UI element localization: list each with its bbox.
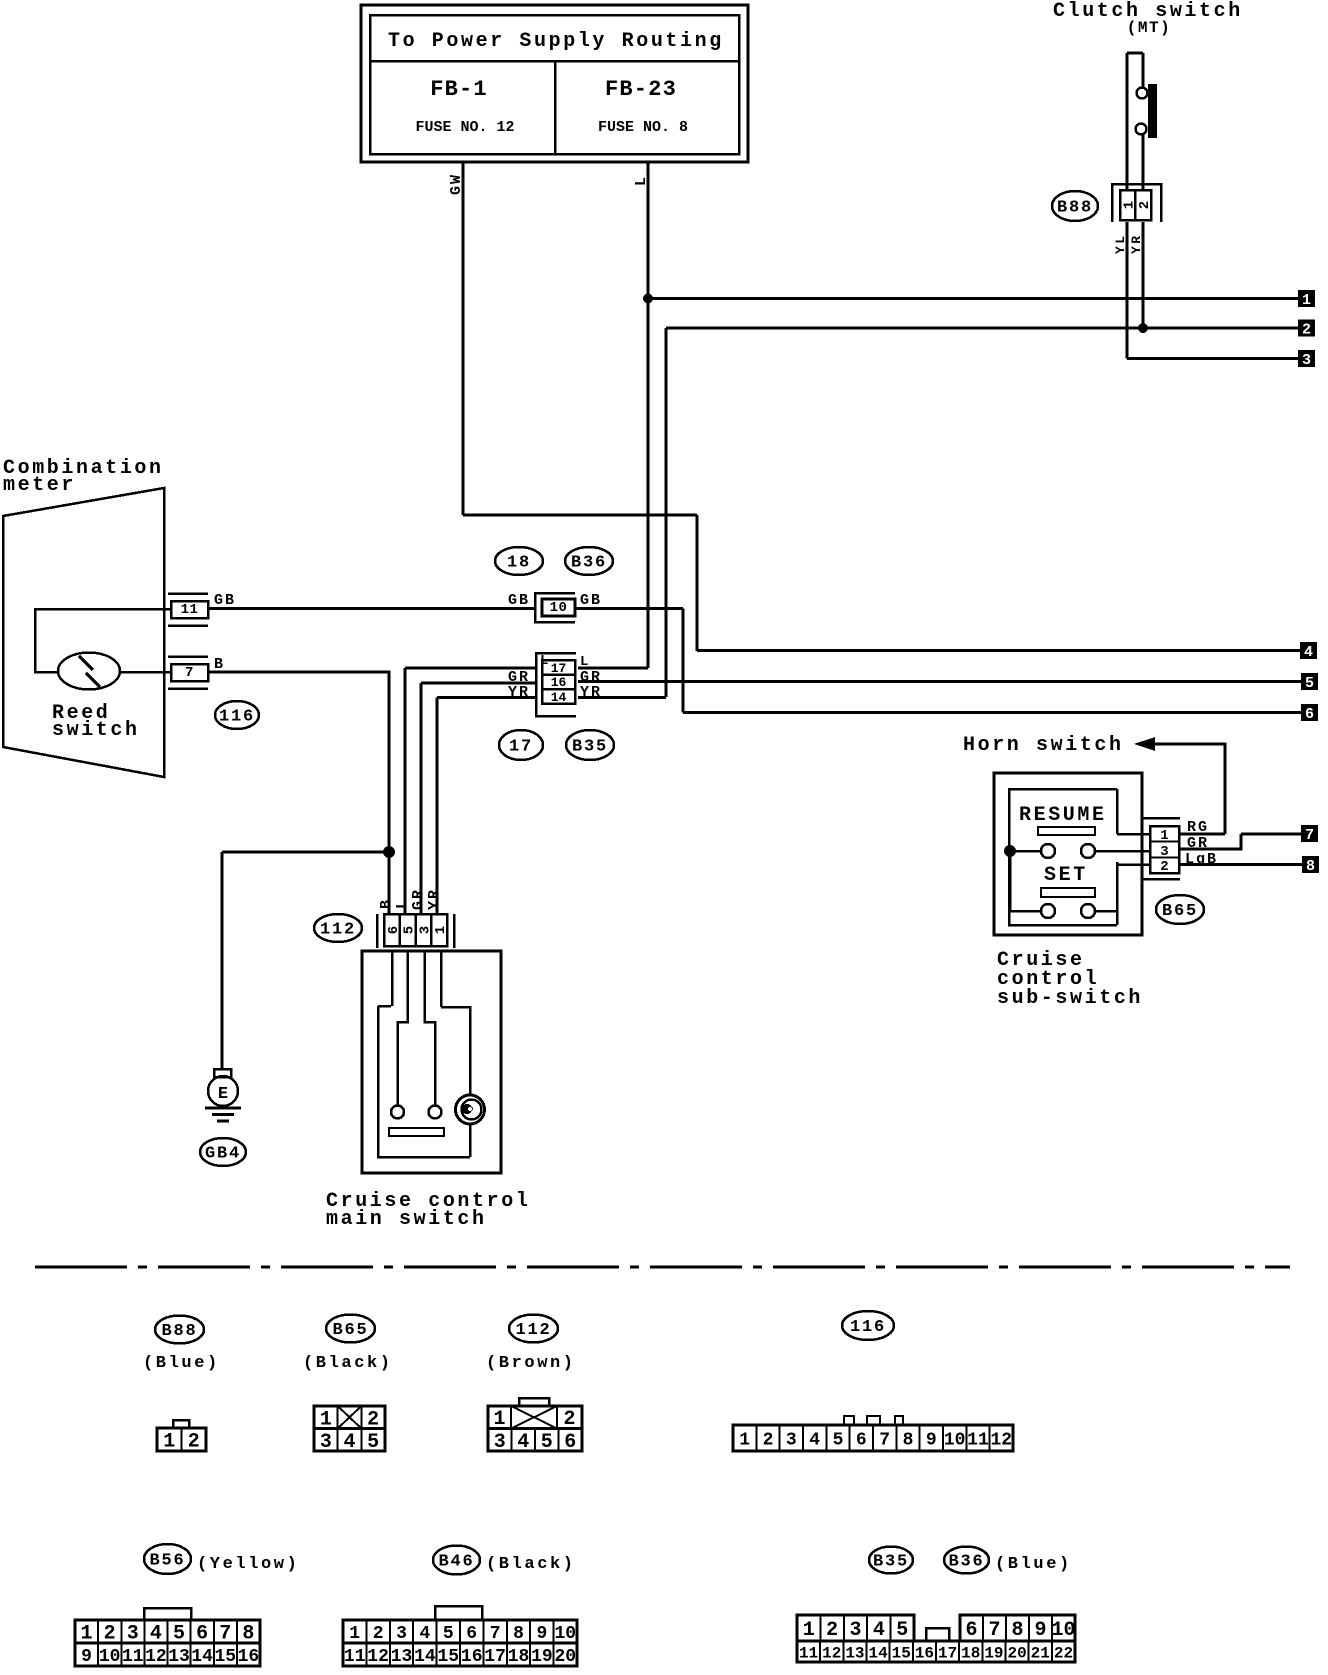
svg-text:B: B <box>214 656 225 673</box>
power supply routing box <box>361 5 748 162</box>
set bar <box>1041 888 1095 897</box>
main switch inner box edges <box>378 1005 391 1008</box>
svg-text:(MT): (MT) <box>1127 19 1171 37</box>
oval label B36 legend <box>944 1547 989 1574</box>
wire lamp to inner box bottom <box>469 1124 472 1157</box>
wire common down to set row <box>1010 851 1041 911</box>
svg-text:FB-1: FB-1 <box>430 77 488 102</box>
svg-text:B46: B46 <box>438 1553 474 1572</box>
svg-text:13: 13 <box>391 1647 413 1667</box>
svg-text:6: 6 <box>466 1624 477 1644</box>
svg-text:18: 18 <box>508 1647 530 1667</box>
resume bar <box>1038 827 1095 835</box>
svg-text:20: 20 <box>554 1647 576 1667</box>
wire YL down to line3 <box>1126 222 1129 359</box>
svg-text:10: 10 <box>550 600 568 616</box>
svg-text:sub-switch: sub-switch <box>997 987 1143 1010</box>
svg-text:switch: switch <box>52 719 140 742</box>
connector pin 16 box <box>542 675 575 690</box>
wire resume contact to connector pin3 <box>1095 850 1150 853</box>
svg-text:9: 9 <box>1034 1619 1046 1642</box>
svg-text:8: 8 <box>903 1430 914 1450</box>
svg-text:11: 11 <box>181 602 199 618</box>
wire line 2 to tag 2 <box>666 327 1300 330</box>
oval label B88 legend <box>155 1316 204 1344</box>
node junction B/ground branch <box>384 847 395 858</box>
connector B88 pin 2 cell <box>1135 190 1151 220</box>
svg-text:L: L <box>580 654 588 670</box>
connector B88 bracket <box>1112 184 1161 222</box>
svg-text:main switch: main switch <box>326 1208 487 1231</box>
meter pin 11 bracket <box>168 592 208 595</box>
svg-text:FB-23: FB-23 <box>605 77 677 102</box>
svg-text:12: 12 <box>145 1647 167 1667</box>
connector 112 cells <box>384 914 447 946</box>
svg-text:RESUME: RESUME <box>1019 804 1107 827</box>
svg-text:(Yellow): (Yellow) <box>197 1555 299 1574</box>
svg-text:9: 9 <box>81 1647 92 1667</box>
svg-text:E: E <box>218 1085 228 1104</box>
svg-text:meter: meter <box>3 474 76 497</box>
svg-text:4: 4 <box>343 1431 355 1454</box>
svg-text:5: 5 <box>896 1619 908 1642</box>
svg-text:4: 4 <box>1304 644 1313 661</box>
connector B46 legend cells <box>343 1620 577 1643</box>
main switch contact circle left <box>391 1106 404 1119</box>
svg-text:4: 4 <box>517 1431 529 1454</box>
svg-text:(Blue): (Blue) <box>995 1555 1072 1574</box>
svg-text:18: 18 <box>507 554 531 573</box>
svg-text:B65: B65 <box>1162 902 1198 921</box>
svg-text:2: 2 <box>826 1619 838 1642</box>
svg-text:4: 4 <box>419 1624 430 1644</box>
svg-text:5: 5 <box>541 1431 553 1454</box>
svg-text:LgB: LgB <box>1185 851 1218 868</box>
sub-switch connector cells <box>1150 826 1179 873</box>
wire pin1 left <box>1117 833 1150 836</box>
wire GB down x683 <box>682 609 685 713</box>
separator dash-dot line <box>35 1266 1290 1269</box>
main switch actuator bar <box>389 1128 444 1136</box>
svg-text:YR: YR <box>426 888 443 910</box>
svg-text:1: 1 <box>739 1430 750 1450</box>
svg-text:L: L <box>540 653 548 669</box>
main switch outer box <box>362 951 501 1173</box>
svg-text:7: 7 <box>879 1430 890 1450</box>
svg-text:6: 6 <box>386 926 402 934</box>
resume contact circle right <box>1081 844 1095 858</box>
oval label 17 <box>499 730 543 760</box>
svg-text:3: 3 <box>494 1431 506 1454</box>
wire GR down to 112 <box>420 683 423 914</box>
svg-text:13: 13 <box>845 1644 864 1662</box>
svg-text:7: 7 <box>988 1619 1000 1642</box>
svg-text:15: 15 <box>215 1647 237 1667</box>
node common junction dot <box>1005 846 1016 857</box>
wire GB from pin11 to connector 10 <box>208 607 535 610</box>
connector B46 legend tab <box>435 1606 482 1620</box>
svg-text:YR: YR <box>508 684 530 701</box>
node junction L/line1 <box>644 294 653 303</box>
oval label 116 legend <box>842 1311 894 1340</box>
svg-text:10: 10 <box>944 1430 966 1450</box>
connector B35/B36 legend tab <box>926 1628 949 1641</box>
wire B into switch <box>391 951 394 1006</box>
svg-text:8: 8 <box>1011 1619 1023 1642</box>
svg-text:3: 3 <box>849 1619 861 1642</box>
oval label B56 legend <box>144 1544 191 1574</box>
svg-text:6: 6 <box>965 1619 977 1642</box>
resume contact circle left <box>1041 844 1055 858</box>
oval label B36 <box>565 547 613 575</box>
fuse box dividers <box>370 60 739 63</box>
svg-text:To Power Supply Routing: To Power Supply Routing <box>388 30 724 53</box>
svg-text:RG: RG <box>1187 819 1209 836</box>
svg-text:8: 8 <box>513 1624 524 1644</box>
svg-text:17: 17 <box>938 1644 957 1662</box>
svg-text:16: 16 <box>915 1644 934 1662</box>
svg-text:9: 9 <box>536 1624 547 1644</box>
wire L right segment pin17 <box>578 667 648 670</box>
tag 3 <box>1298 350 1315 367</box>
svg-text:YR: YR <box>580 684 602 701</box>
connector B65 legend cells <box>314 1406 385 1429</box>
connector 112 legend tab <box>519 1398 549 1406</box>
wire pin2 right LgB to tag8 <box>1179 863 1304 866</box>
wire B from pin7 to junction <box>208 672 389 914</box>
wire pin2 left <box>1117 863 1150 866</box>
svg-text:14: 14 <box>551 690 567 705</box>
svg-text:10: 10 <box>1051 1619 1075 1642</box>
wire pin1 right RG to horn <box>1179 833 1225 836</box>
set contact circle left <box>1041 904 1055 918</box>
svg-text:11: 11 <box>799 1644 818 1662</box>
svg-text:16: 16 <box>461 1647 483 1667</box>
wire L vertical from FB-23 <box>647 162 650 668</box>
svg-text:B88: B88 <box>161 1322 197 1341</box>
svg-text:5: 5 <box>443 1624 454 1644</box>
ground symbol bars <box>205 1107 241 1110</box>
wire YR right segment pin14 <box>578 696 666 699</box>
wire GR left segment pin16 <box>421 682 536 685</box>
wire L into switch to contact <box>398 951 408 1105</box>
horn arrow <box>1134 737 1155 751</box>
svg-text:11: 11 <box>967 1430 989 1450</box>
svg-text:16: 16 <box>238 1647 260 1667</box>
wire GR into switch to contact <box>425 951 436 1105</box>
svg-text:2: 2 <box>188 1431 200 1454</box>
ground E circle <box>208 1076 238 1106</box>
svg-text:4: 4 <box>873 1619 885 1642</box>
svg-text:2: 2 <box>373 1624 384 1644</box>
oval label B35 legend <box>869 1547 913 1574</box>
clutch plunger bar <box>1148 84 1157 138</box>
meter pin 7 box <box>171 664 208 681</box>
oval label B88 <box>1052 191 1098 221</box>
illumination lamp <box>456 1095 485 1124</box>
svg-text:5: 5 <box>833 1430 844 1450</box>
wire vertical x666 line2 to pin14 <box>665 328 668 697</box>
oval label GB4 <box>200 1138 246 1166</box>
svg-text:7: 7 <box>185 665 194 681</box>
connector 116 legend cells <box>733 1425 1013 1451</box>
svg-text:1: 1 <box>349 1624 360 1644</box>
tag 7 <box>1301 825 1318 842</box>
svg-text:3: 3 <box>320 1431 332 1454</box>
svg-text:3: 3 <box>1302 352 1311 369</box>
svg-text:B88: B88 <box>1057 199 1093 218</box>
connector pin 14 box <box>542 689 575 704</box>
svg-text:15: 15 <box>437 1647 459 1667</box>
connector B56 legend tab <box>144 1608 191 1620</box>
combination meter outline <box>3 488 164 777</box>
wire L left segment pin17 <box>405 667 536 670</box>
wire line 6 to tag 6 <box>683 711 1303 714</box>
wire line 5 GR to tag 5 <box>578 680 1303 683</box>
svg-text:7: 7 <box>490 1624 501 1644</box>
svg-text:14: 14 <box>191 1647 213 1667</box>
wire GW down to line4 <box>696 515 699 651</box>
svg-text:11: 11 <box>344 1647 366 1667</box>
clutch contact circle 2 <box>1136 124 1147 135</box>
svg-text:3: 3 <box>786 1430 797 1450</box>
svg-text:1: 1 <box>803 1619 815 1642</box>
svg-text:6: 6 <box>1305 706 1314 723</box>
svg-text:19: 19 <box>531 1647 553 1667</box>
svg-text:GB: GB <box>214 592 236 609</box>
svg-text:(Blue): (Blue) <box>143 1354 220 1373</box>
wire YR left segment pin14 <box>437 696 536 699</box>
svg-text:GR: GR <box>1187 835 1209 852</box>
svg-text:Horn switch: Horn switch <box>963 734 1124 757</box>
svg-text:1: 1 <box>163 1431 175 1454</box>
connector B35/B36 legend cells row1 left <box>797 1615 914 1641</box>
svg-text:FUSE NO. 12: FUSE NO. 12 <box>415 119 514 136</box>
wire GW vertical from FB-1 <box>462 162 465 515</box>
sub-switch connector bracket <box>1143 817 1180 820</box>
svg-text:B: B <box>378 898 395 909</box>
wire YR down to 112 <box>436 698 439 915</box>
svg-text:SET: SET <box>1044 864 1088 887</box>
svg-text:7: 7 <box>1305 827 1314 844</box>
svg-text:112: 112 <box>515 1321 551 1340</box>
svg-text:21: 21 <box>1031 1644 1050 1662</box>
wire clutch contact to connector <box>1142 135 1145 190</box>
svg-text:B65: B65 <box>332 1321 368 1340</box>
sub-switch outer box <box>994 773 1142 935</box>
svg-text:22: 22 <box>1054 1644 1073 1662</box>
svg-text:FUSE NO. 8: FUSE NO. 8 <box>598 119 688 136</box>
svg-text:14: 14 <box>868 1644 888 1662</box>
clutch contact circle 1 <box>1137 88 1148 99</box>
svg-text:12: 12 <box>822 1644 841 1662</box>
svg-text:1: 1 <box>1160 828 1168 844</box>
oval label B46 legend <box>433 1546 480 1575</box>
svg-text:2: 2 <box>1160 859 1168 875</box>
svg-text:12: 12 <box>367 1647 389 1667</box>
connector B35/B36 legend cells row1 right <box>960 1615 1075 1641</box>
wire line 3 to tag 3 <box>1127 357 1300 360</box>
connector pin 17 box <box>542 660 575 675</box>
svg-text:L: L <box>394 898 411 909</box>
connector B88 legend cells <box>157 1428 206 1451</box>
svg-text:16: 16 <box>551 675 567 690</box>
oval label 116 <box>215 701 259 729</box>
wire pin3 right GR to tag7 <box>1179 834 1241 849</box>
svg-text:2: 2 <box>1302 322 1311 339</box>
connector 10 bracket <box>535 593 575 622</box>
svg-text:116: 116 <box>219 708 255 727</box>
wire clutch right to contact <box>1142 53 1145 87</box>
connector B56 legend cells <box>75 1620 260 1643</box>
tag 5 <box>1301 673 1318 690</box>
wire clutch left <box>1126 53 1129 190</box>
svg-text:2: 2 <box>763 1430 774 1450</box>
svg-text:8: 8 <box>1306 858 1315 875</box>
meter pin 7 bracket <box>168 655 208 658</box>
svg-text:18: 18 <box>961 1644 980 1662</box>
oval label 112 legend <box>509 1315 558 1343</box>
svg-text:10: 10 <box>554 1624 576 1644</box>
svg-text:12: 12 <box>990 1430 1012 1450</box>
connector B35/B36 legend cells row2 <box>797 1641 1075 1662</box>
svg-text:GR: GR <box>410 888 427 910</box>
wire line 4 to tag 4 <box>697 649 1302 652</box>
svg-text:112: 112 <box>320 921 356 940</box>
svg-text:GB: GB <box>508 592 530 609</box>
tag 6 <box>1301 704 1318 721</box>
svg-text:6: 6 <box>856 1430 867 1450</box>
connector 112 legend cells <box>488 1406 582 1429</box>
svg-text:B35: B35 <box>572 738 608 757</box>
svg-text:11: 11 <box>122 1647 144 1667</box>
svg-text:19: 19 <box>984 1644 1003 1662</box>
wire GW horizontal to x697 <box>463 514 697 517</box>
connector B88 pin 1 cell <box>1120 190 1135 220</box>
wire GB from connector 10 right <box>575 607 683 610</box>
connector 10 box <box>542 599 575 616</box>
svg-text:6: 6 <box>564 1431 576 1454</box>
tag 1 <box>1298 290 1315 307</box>
svg-text:10: 10 <box>99 1647 121 1667</box>
main switch contact circle right <box>429 1106 442 1119</box>
ground E connector neck <box>214 1069 231 1077</box>
connector 116 legend tabs <box>844 1416 854 1425</box>
oval label 18 <box>495 547 543 575</box>
svg-text:5: 5 <box>402 926 418 934</box>
oval label 112 <box>314 914 362 942</box>
svg-text:(Black): (Black) <box>486 1555 576 1574</box>
wire meter internal pin11 <box>35 609 171 672</box>
svg-text:GW: GW <box>448 173 465 195</box>
tag 2 <box>1298 320 1315 337</box>
oval label B35 <box>566 730 614 760</box>
wire line 1 to tag 1 <box>648 297 1300 300</box>
svg-text:L: L <box>633 175 650 186</box>
svg-text:B36: B36 <box>571 554 607 573</box>
svg-text:3: 3 <box>396 1624 407 1644</box>
oval label B65 <box>1156 895 1204 924</box>
svg-text:4: 4 <box>809 1430 820 1450</box>
tag 4 <box>1300 642 1317 659</box>
wire set contact to inner box <box>1095 910 1117 913</box>
svg-text:14: 14 <box>414 1647 436 1667</box>
oval label B65 legend <box>326 1315 375 1343</box>
svg-text:1: 1 <box>433 926 449 934</box>
svg-text:1: 1 <box>1302 292 1311 309</box>
connector B88 legend tab <box>173 1420 189 1428</box>
svg-text:3: 3 <box>1160 844 1168 860</box>
tag 8 <box>1302 856 1319 873</box>
svg-text:5: 5 <box>1305 675 1314 692</box>
wire horn switch <box>1152 744 1225 834</box>
svg-text:15: 15 <box>892 1644 911 1662</box>
wire YR into switch to lamp <box>440 951 443 1007</box>
node junction YR/line2 <box>1139 324 1148 333</box>
wire ground branch <box>222 851 389 854</box>
wire L down to 112 <box>404 668 407 914</box>
svg-text:B35: B35 <box>873 1553 909 1572</box>
svg-text:17: 17 <box>509 738 533 757</box>
svg-text:5: 5 <box>367 1431 379 1454</box>
svg-text:2: 2 <box>1137 201 1153 209</box>
wire YR down to line2 <box>1142 222 1145 328</box>
wire line 7 to tag 7 <box>1241 833 1303 836</box>
svg-text:13: 13 <box>168 1647 190 1667</box>
svg-text:(Brown): (Brown) <box>486 1354 576 1373</box>
svg-text:(Black): (Black) <box>303 1354 393 1373</box>
svg-text:3: 3 <box>417 926 433 934</box>
connector 112 bracket <box>376 914 379 948</box>
svg-text:GB4: GB4 <box>205 1145 241 1164</box>
set contact circle right <box>1081 904 1095 918</box>
svg-text:B56: B56 <box>149 1552 185 1571</box>
sub-switch inner box <box>1009 789 1117 925</box>
svg-text:B36: B36 <box>948 1553 984 1572</box>
svg-text:17: 17 <box>484 1647 506 1667</box>
svg-text:9: 9 <box>926 1430 937 1450</box>
meter pin 11 box <box>171 601 208 618</box>
wire common to resume contact <box>1010 850 1041 853</box>
svg-text:GB: GB <box>580 592 602 609</box>
wire clutch top bar <box>1127 52 1143 55</box>
connector B35 bracket <box>536 653 576 716</box>
reed switch symbol <box>58 653 120 690</box>
svg-text:116: 116 <box>850 1318 886 1337</box>
wire reed to pin7 <box>120 671 171 674</box>
svg-text:20: 20 <box>1008 1644 1027 1662</box>
